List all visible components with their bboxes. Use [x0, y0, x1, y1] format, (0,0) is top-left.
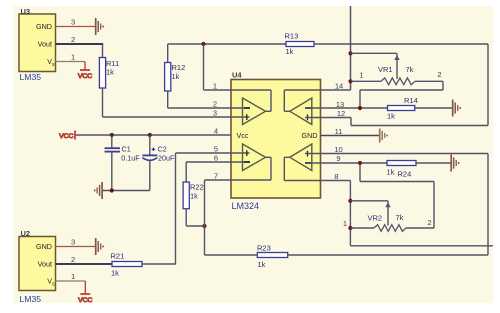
- potentiometer VR1 7k: [351, 53, 444, 84]
- svg-text:U2: U2: [21, 229, 31, 238]
- sensor U2 (LM35): [19, 229, 56, 304]
- wire R24 to ground: [416, 162, 451, 164]
- svg-text:2: 2: [213, 100, 217, 109]
- wire pin 1 U4: [204, 89, 272, 91]
- power VCC at U3: [78, 62, 92, 81]
- junction VR2 wiper tap: [348, 199, 352, 203]
- svg-text:4: 4: [214, 127, 218, 136]
- svg-text:1: 1: [213, 82, 217, 91]
- wire pin 7 U4: [205, 179, 272, 181]
- U4 left pin numbers: [213, 82, 218, 181]
- junction VR1 wiper tap: [348, 51, 352, 55]
- svg-text:VCC: VCC: [78, 73, 92, 80]
- svg-text:3: 3: [71, 238, 75, 247]
- wire pin 12 U4 loop: [305, 44, 488, 126]
- wire caps to ground: [103, 190, 150, 192]
- svg-text:R22: R22: [190, 183, 204, 192]
- resistor R12 1k: [165, 44, 186, 108]
- wire pin 11 U4: [321, 135, 380, 137]
- svg-text:VCC: VCC: [78, 297, 92, 304]
- junction VR2 pin1 tap: [348, 226, 352, 230]
- wire pin 13 U4: [305, 107, 388, 109]
- ground U2 pin3: [96, 238, 104, 255]
- wire pin8 drop to VR2: [349, 181, 351, 246]
- svg-text:3: 3: [71, 18, 75, 27]
- svg-text:20uF: 20uF: [158, 153, 175, 162]
- pin 1 U2 Vs wire: [56, 272, 86, 281]
- svg-text:1k: 1k: [111, 269, 119, 278]
- wire pin 9 U4: [305, 162, 387, 164]
- svg-text:C1: C1: [122, 145, 131, 154]
- pin 1 U3 Vs wire: [56, 53, 86, 62]
- ground U3 pin3: [96, 18, 104, 35]
- svg-text:LM324: LM324: [232, 201, 260, 211]
- pin 2 U3 Vout wire: [56, 35, 104, 44]
- svg-text:14: 14: [335, 81, 343, 90]
- op-amp C (pins 5,6,7): [243, 144, 272, 180]
- junction pin9 R24: [358, 161, 362, 165]
- svg-text:R23: R23: [257, 244, 271, 253]
- power VCC rail: [59, 131, 75, 140]
- svg-text:U4: U4: [232, 71, 242, 80]
- potentiometer VR2 7k: [343, 201, 434, 232]
- ground R14: [453, 100, 461, 117]
- svg-text:Vout: Vout: [38, 40, 52, 49]
- svg-text:1: 1: [359, 71, 363, 80]
- svg-text:12: 12: [337, 109, 345, 118]
- svg-text:3: 3: [213, 109, 217, 118]
- svg-text:1: 1: [343, 219, 347, 228]
- ground pin11: [380, 129, 388, 143]
- resistor R23 1k: [205, 244, 288, 270]
- ground R24: [451, 155, 459, 172]
- junction pin1 node: [201, 42, 205, 46]
- svg-text:1: 1: [71, 53, 75, 62]
- wire pin 14 U4: [284, 89, 350, 91]
- svg-text:1k: 1k: [106, 68, 114, 77]
- svg-text:5: 5: [214, 145, 218, 154]
- svg-text:11: 11: [335, 127, 343, 136]
- svg-text:Vcc: Vcc: [237, 131, 249, 140]
- wire pin 5 U4: [176, 152, 250, 154]
- svg-text:1k: 1k: [172, 72, 180, 81]
- svg-text:2: 2: [71, 35, 75, 44]
- capacitor C1 0.1uF: [105, 135, 141, 191]
- sensor U3 (LM35): [19, 7, 56, 82]
- resistor R11 1k: [99, 44, 119, 117]
- svg-text:R12: R12: [172, 63, 186, 72]
- svg-text:1k: 1k: [286, 47, 294, 56]
- svg-text:R21: R21: [111, 252, 125, 261]
- pin 3 U2 GND wire: [56, 238, 96, 247]
- wire pin 8 U4: [284, 180, 350, 182]
- op-amp D (pins 10,9,8): [284, 144, 312, 181]
- svg-text:VR2: VR2: [368, 214, 383, 223]
- power VCC at U2: [78, 281, 92, 304]
- wire top net vertical: [350, 6, 352, 90]
- svg-text:9: 9: [336, 154, 340, 163]
- resistor R22 1k: [183, 162, 204, 226]
- junction VR1 pin1 tap: [348, 79, 352, 83]
- svg-text:LM35: LM35: [20, 294, 42, 304]
- svg-text:R13: R13: [285, 32, 299, 41]
- svg-text:2: 2: [427, 218, 431, 227]
- svg-text:GND: GND: [36, 22, 52, 31]
- svg-text:7k: 7k: [406, 65, 414, 74]
- svg-text:R14: R14: [404, 96, 418, 105]
- wire output net to sheet edge: [350, 245, 493, 247]
- svg-text:1: 1: [71, 272, 75, 281]
- svg-text:1k: 1k: [387, 112, 395, 121]
- svg-text:Vout: Vout: [38, 260, 52, 269]
- ground decoupling: [94, 182, 102, 199]
- wire R13 to right edge: [314, 43, 488, 45]
- wire pin 2 U4: [168, 107, 250, 109]
- wire pin 10 U4: [305, 153, 488, 155]
- wire pin 6 U4: [186, 161, 249, 163]
- resistor R24 1k: [387, 161, 417, 179]
- wire node R13 rail: [168, 43, 286, 45]
- wire pin 3 U4: [103, 116, 250, 118]
- op-amp B (pins 14,13,12): [284, 90, 312, 125]
- svg-text:8: 8: [334, 172, 338, 181]
- svg-text:10: 10: [334, 145, 342, 154]
- svg-text:GND: GND: [302, 131, 318, 140]
- junction C2 top: [148, 133, 152, 137]
- svg-text:R24: R24: [398, 170, 412, 179]
- svg-text:VR1: VR1: [378, 65, 393, 74]
- junction pin13 R14: [358, 106, 362, 110]
- capacitor C2 20uF polarized: [142, 135, 175, 191]
- svg-text:2: 2: [437, 70, 441, 79]
- op-amp A (pins 1,2,3): [243, 90, 272, 125]
- junction C1 top: [110, 133, 114, 137]
- svg-text:1k: 1k: [258, 260, 266, 269]
- wire R23 to pin 10 loop: [288, 254, 488, 256]
- resistor R21 1k: [111, 252, 143, 278]
- svg-text:0.1uF: 0.1uF: [121, 153, 140, 162]
- svg-text:LM35: LM35: [20, 72, 42, 82]
- svg-text:7: 7: [214, 172, 218, 181]
- svg-text:2: 2: [71, 255, 75, 264]
- svg-text:VCC: VCC: [59, 133, 73, 140]
- wire VR2 pin2 loop: [360, 163, 434, 228]
- svg-text:U3: U3: [21, 7, 31, 16]
- wire pin1 drop: [203, 44, 205, 90]
- svg-text:1k: 1k: [387, 168, 395, 177]
- svg-text:C2: C2: [158, 145, 167, 154]
- svg-text:7k: 7k: [396, 213, 404, 222]
- resistor R13 1k: [285, 32, 315, 57]
- svg-text:GND: GND: [36, 242, 52, 251]
- U4 right pin numbers: [334, 81, 345, 181]
- wire VR1 pin2 loop: [360, 81, 443, 108]
- junction C1 C2 ground: [110, 188, 114, 192]
- wire pin 4 U4 Vcc: [76, 134, 231, 136]
- wire R21 to pin 5: [142, 263, 176, 265]
- junction R22 pin7: [202, 224, 206, 228]
- pin 3 U3 GND wire: [56, 18, 96, 27]
- svg-text:6: 6: [214, 154, 218, 163]
- wire R14 to ground: [415, 107, 452, 109]
- svg-text:1k: 1k: [190, 192, 198, 201]
- pin 2 U2 Vout wire: [56, 255, 113, 264]
- wire pin7 drop: [204, 180, 206, 255]
- resistor R14 1k: [387, 96, 418, 121]
- op-amp IC U4 LM324: [231, 71, 321, 212]
